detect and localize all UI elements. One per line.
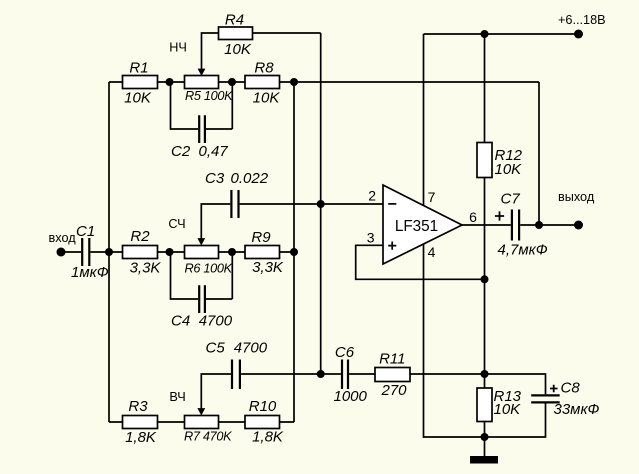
junction x=109 y=252 [105,248,113,256]
svg-text:НЧ: НЧ [169,41,187,55]
junction x=294 y=252 [290,248,298,256]
svg-text:C1: C1 [76,223,95,240]
wire C3 to op-amp inverting input [240,203,383,205]
junction x=169.5 y=82 [166,78,174,86]
wire C3 branch left to R6 wiper [201,204,230,239]
svg-text:10K: 10K [224,41,252,58]
svg-text:R5 100K: R5 100K [185,89,233,103]
svg-text:33мкФ: 33мкФ [554,401,600,418]
wire row3 main (ВЧ row, y=422) [109,421,294,423]
svg-text:R6 100K: R6 100K [185,262,233,276]
wire op-amp output to C7 [462,224,511,226]
capacitor C8 [531,380,599,419]
wire C5 branch left to R7 wiper [201,374,231,409]
svg-text:270: 270 [380,382,407,399]
resistor R2 [123,228,162,276]
svg-text:R8: R8 [254,60,274,77]
svg-text:R7 470K: R7 470K [184,430,232,444]
power terminal +6...18В [558,13,606,39]
junction x=169.5 y=252 [166,248,174,256]
wire ground stem [484,437,486,457]
wire C7 to output terminal [520,224,578,226]
junction x=320.7 y=374 [317,370,325,378]
junction x=539 y=225 [535,221,543,229]
svg-text:4: 4 [428,244,436,260]
resistor R11 [375,351,410,400]
potentiometer R7 [184,408,232,443]
wire op-amp pin4 vertical to ground rail [424,244,485,437]
resistor R9 [245,229,284,276]
junction x=294 y=82 [290,78,298,86]
resistor R3 [123,398,158,446]
svg-text:2: 2 [368,188,376,204]
input terminal вход [49,231,77,257]
svg-text:6: 6 [469,209,477,225]
wire vertical x=320.7 (R4 right to C6 node) [320,33,322,374]
svg-text:7: 7 [428,189,436,205]
svg-text:4,7мкФ: 4,7мкФ [498,242,548,259]
svg-text:C2: C2 [171,143,191,160]
svg-text:C6: C6 [335,344,355,361]
svg-text:C5: C5 [206,340,226,357]
junction x=484.5 y=437 [481,433,489,441]
junction x=320.7 y=204 [317,200,325,208]
svg-text:выход: выход [558,190,595,204]
capacitor C4 [171,285,233,329]
capacitor C2 [171,115,228,160]
wire C2 bracket [171,82,233,129]
svg-text:R11: R11 [379,351,405,368]
wire power rail y=34 [424,33,579,35]
svg-text:0,47: 0,47 [199,143,229,160]
ground [470,456,498,464]
wire C5 to C6 [241,373,341,375]
junction x=484.5 y=374 [481,370,489,378]
svg-text:R10: R10 [249,398,277,415]
wire C6 to R11 [349,373,375,375]
svg-text:R1: R1 [129,60,148,77]
svg-text:1,8K: 1,8K [252,428,284,445]
svg-text:4700: 4700 [199,313,233,330]
wire R11 to bias node [410,373,485,375]
svg-text:4700: 4700 [234,340,268,357]
svg-text:3,3K: 3,3K [130,259,162,276]
wire R4 left branch to R5 wiper [202,33,219,69]
output terminal выход [558,190,595,229]
svg-text:ВЧ: ВЧ [169,390,185,404]
svg-text:1000: 1000 [334,388,368,405]
capacitor C1 [71,223,109,281]
wire left vertical bus x=109 [108,82,110,422]
svg-text:R3: R3 [128,398,148,415]
wire R4 right branch [253,32,321,34]
op-amp U1 LF351 [383,185,462,264]
svg-text:3: 3 [367,229,375,245]
junction x=232 y=82 [228,78,236,86]
svg-text:R4: R4 [225,12,244,29]
wire row2 main (СЧ row, y=252) [91,251,295,253]
svg-text:3,3K: 3,3K [252,259,284,276]
resistor R4 [219,12,253,59]
capacitor C3 [205,170,269,218]
resistor R8 [245,60,280,107]
wire bias divider vertical x=484.5 [484,34,486,437]
wire right vertical bus x=294 [293,82,295,422]
wire feedback vertical x=539 [538,82,540,225]
svg-text:1мкФ: 1мкФ [71,264,109,281]
svg-text:LF351: LF351 [395,218,438,235]
capacitor C7 [495,191,548,259]
svg-text:C8: C8 [561,380,581,397]
resistor R10 [245,398,284,445]
resistor R12 [477,143,523,179]
svg-text:10K: 10K [494,401,522,418]
svg-text:R9: R9 [251,229,271,246]
wire C8 top branch [485,374,546,394]
potentiometer R5 [185,69,234,103]
wire op-amp pin3 to bias node [356,245,485,279]
capacitor C6 [334,344,368,405]
potentiometer R6 [185,238,233,275]
resistor R13 [477,388,522,422]
svg-text:C4: C4 [171,313,190,330]
svg-text:10K: 10K [253,90,281,107]
junction x=484.5 y=279.3 [481,275,489,283]
svg-text:10K: 10K [495,161,523,178]
resistor R1 [123,60,158,107]
svg-text:10K: 10K [124,90,152,107]
svg-text:СЧ: СЧ [168,217,185,231]
junction x=232 y=252 [228,248,236,256]
svg-text:вход: вход [49,231,77,245]
svg-text:R2: R2 [130,228,150,245]
svg-text:C3: C3 [205,170,225,187]
wire op-amp pin7 supply vertical [423,34,425,205]
wire row1 main (НЧ row, y=82) [109,81,539,83]
svg-text:C7: C7 [501,191,521,208]
svg-text:+6...18В: +6...18В [558,13,606,27]
svg-text:1,8K: 1,8K [125,429,157,446]
wire C4 bracket [171,252,233,299]
capacitor C5 [206,340,268,390]
junction x=484.5 y=34 [481,30,489,38]
wire C8 bottom branch [485,403,546,437]
svg-text:0.022: 0.022 [231,170,269,187]
wire row2 input segment [61,251,81,253]
